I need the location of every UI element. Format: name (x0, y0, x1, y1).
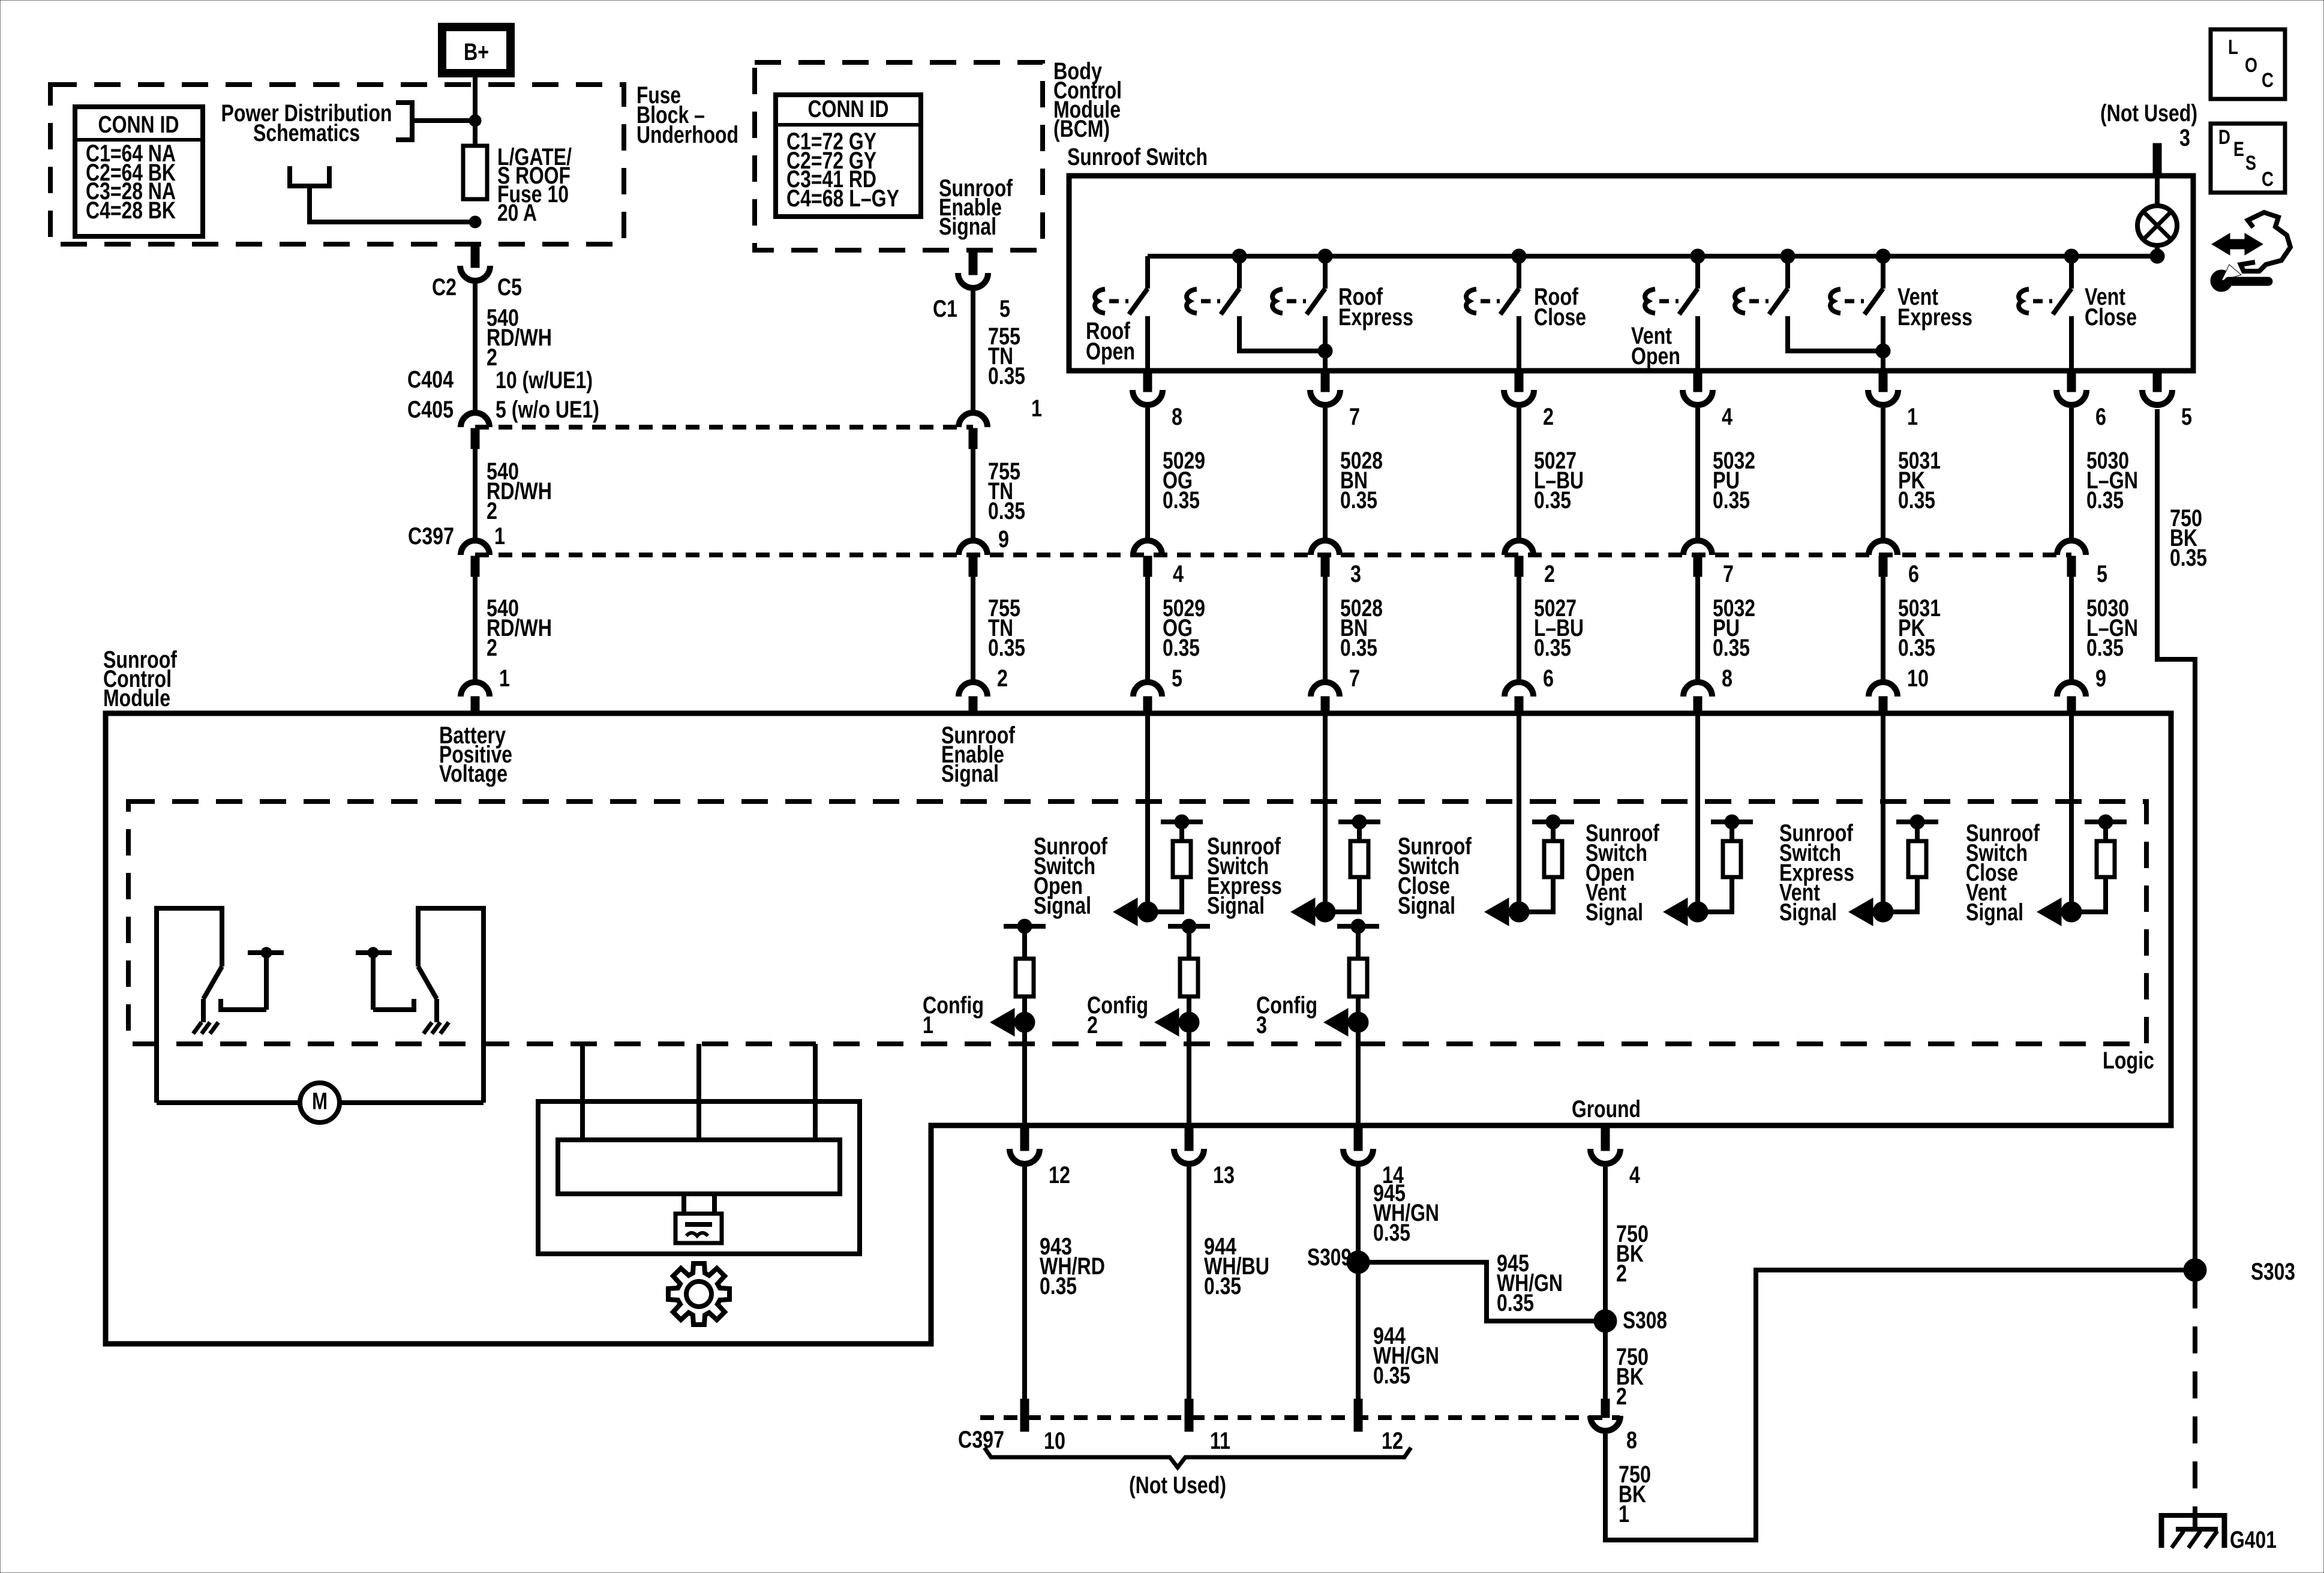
wire 755 TN 0.35 (segment 2) (973, 449, 1025, 541)
switch connector pin 7 (1310, 371, 1360, 430)
connector C397 pin 2 (1505, 541, 1555, 587)
svg-text:4: 4 (1629, 1162, 1641, 1188)
resistor pull-up (sunroof switch close signal) (1519, 815, 1574, 912)
resistor config 2 (1168, 919, 1210, 1022)
switch: vent open detent (linked to vent express) (1735, 249, 1890, 358)
connector C397 pin 4 (1133, 541, 1184, 587)
wire 5030 L–GN 0.35 (upper) (2071, 408, 2138, 541)
svg-text:2: 2 (1616, 1383, 1627, 1410)
svg-text:0.35: 0.35 (2086, 487, 2124, 514)
module pin 2 (sunroof enable signal) (959, 665, 1008, 713)
wire 5028 BN 0.35 (lower) (1325, 577, 1383, 682)
svg-text:Open: Open (1086, 338, 1135, 365)
svg-text:L: L (2228, 36, 2238, 59)
module pin 10 (1869, 665, 1929, 713)
svg-text:0.35: 0.35 (1534, 635, 1571, 661)
svg-text:7: 7 (1349, 404, 1360, 430)
svg-text:(BCM): (BCM) (1053, 116, 1110, 142)
module pin 8 (1683, 665, 1733, 713)
svg-text:0.35: 0.35 (988, 635, 1025, 661)
switch: roof express (1272, 249, 1413, 371)
svg-text:7: 7 (1349, 665, 1360, 692)
wire 5032 PU 0.35 (lower) (1698, 577, 1755, 682)
wire B+ to fuse (473, 73, 478, 146)
svg-text:5: 5 (2097, 561, 2107, 587)
svg-text:5: 5 (2181, 404, 2192, 430)
svg-text:2: 2 (997, 665, 1008, 692)
config 2 arrow (1087, 992, 1199, 1038)
svg-text:C2: C2 (432, 274, 457, 301)
LOC reference box (2211, 29, 2285, 99)
svg-text:3: 3 (1350, 561, 1361, 587)
switch connector pin 8 (1133, 371, 1182, 430)
ground-side bracket reference (290, 166, 472, 222)
drive gear (668, 1263, 729, 1325)
svg-text:Logic: Logic (2103, 1047, 2154, 1074)
CONN ID table (BCM) (776, 95, 921, 217)
svg-text:(Not Used): (Not Used) (2100, 100, 2197, 127)
switch connector pin 4 (1683, 371, 1733, 430)
svg-text:Express: Express (1338, 304, 1413, 331)
illumination lamp (2137, 175, 2177, 263)
signal arrow sunroof switch close vent signal (1966, 820, 2082, 926)
svg-text:5: 5 (1172, 665, 1182, 692)
svg-text:0.35: 0.35 (1373, 1362, 1410, 1389)
signal arrow sunroof switch open signal (1034, 833, 1158, 926)
svg-text:7: 7 (1723, 561, 1734, 587)
svg-text:C404: C404 (407, 367, 454, 393)
connector C397 pin 6 (1869, 541, 1919, 587)
wire 5030 L–GN 0.35 (lower) (2071, 577, 2138, 682)
wire 540 RD/WH 2 (segment 1) (475, 284, 552, 413)
power distribution schematics reference (221, 100, 473, 146)
wire 5031 PK 0.35 (upper) (1883, 408, 1941, 541)
svg-text:Express: Express (1897, 304, 1972, 331)
svg-text:E: E (2233, 138, 2244, 161)
connector C397 pin 8 (bottom) (1590, 1399, 1637, 1454)
svg-text:0.35: 0.35 (2086, 635, 2124, 661)
svg-text:12: 12 (1382, 1428, 1403, 1454)
switch connector pin 5 (2142, 371, 2192, 430)
signal arrow sunroof switch open vent signal (1586, 820, 1708, 926)
switch connector pin 1 (1868, 371, 1918, 430)
config 3 arrow (1256, 992, 1368, 1038)
pin 3 not used stub (2100, 100, 2197, 175)
svg-text:0.35: 0.35 (1163, 487, 1200, 514)
svg-text:3: 3 (1256, 1012, 1267, 1038)
wire 5028 BN 0.35 (upper) (1325, 408, 1383, 541)
svg-text:8: 8 (1172, 404, 1182, 430)
svg-text:S309: S309 (1307, 1244, 1352, 1271)
config 1 arrow (923, 992, 1035, 1038)
battery feed B+ terminal (442, 27, 511, 73)
svg-text:0.35: 0.35 (988, 498, 1025, 524)
svg-text:4: 4 (1722, 404, 1733, 430)
switch: vent close (2019, 249, 2137, 371)
svg-text:6: 6 (2095, 404, 2106, 430)
svg-text:2: 2 (1616, 1260, 1627, 1287)
svg-text:1: 1 (1031, 395, 1042, 422)
svg-text:0.35: 0.35 (1713, 635, 1750, 661)
switch: roof open detent (linked to roof express) (1187, 249, 1332, 358)
svg-text:6: 6 (1543, 665, 1554, 692)
resistor pull-up (sunroof switch express vent signal) (1883, 815, 1938, 912)
connector C2/C5 (fuse block output) (432, 244, 522, 301)
svg-text:1: 1 (1619, 1501, 1629, 1527)
wire 750 BK 2 (upper) (1605, 1167, 1649, 1321)
module pin 1 (battery positive voltage) (461, 665, 510, 713)
switch supply bus (1148, 254, 2157, 259)
switch: vent express (1830, 249, 1972, 371)
wire 5029 OG 0.35 (upper) (1148, 408, 1205, 541)
svg-text:Signal: Signal (1207, 893, 1265, 919)
svg-text:0.35: 0.35 (1898, 635, 1935, 661)
DESC reference box (2211, 124, 2285, 193)
logic dashed box (128, 801, 2154, 1074)
svg-text:13: 13 (1213, 1162, 1235, 1188)
svg-text:S308: S308 (1623, 1307, 1667, 1334)
svg-text:8: 8 (1626, 1427, 1637, 1454)
svg-text:10: 10 (1044, 1428, 1065, 1454)
body control module (BCM) dashed box (755, 58, 1122, 250)
module pin 5 (1133, 665, 1182, 713)
sensor pickup element (675, 1194, 722, 1243)
wire 540 RD/WH 2 (segment 2) (475, 449, 552, 541)
svg-text:S: S (2245, 152, 2256, 175)
label sunroof enable signal (BCM) (939, 175, 1013, 240)
svg-text:3: 3 (2179, 125, 2190, 151)
svg-text:C405: C405 (407, 397, 454, 423)
resistor pull-up (sunroof switch open vent signal) (1698, 815, 1753, 912)
svg-text:0.35: 0.35 (988, 363, 1025, 389)
wire 540 RD/WH 2 (segment 3) (475, 577, 552, 682)
svg-text:Voltage: Voltage (439, 761, 508, 787)
svg-text:1: 1 (923, 1012, 933, 1038)
svg-text:C397: C397 (408, 523, 454, 550)
connector row C397 (top) (408, 523, 2071, 577)
wire 755 TN 0.35 (segment 1) (973, 291, 1025, 413)
svg-text:C397: C397 (958, 1427, 1004, 1453)
connector C397 pin 7 (1683, 541, 1734, 587)
svg-text:8: 8 (1722, 665, 1733, 692)
svg-text:2: 2 (1087, 1012, 1098, 1038)
svg-text:1: 1 (499, 665, 510, 692)
brace (not used pins) (984, 1448, 1411, 1499)
svg-text:0.35: 0.35 (1373, 1220, 1410, 1246)
resistor config 3 (1337, 919, 1379, 1022)
wire sunroof switch close vent signal input (2069, 713, 2074, 912)
label sunroof enable signal (module) (941, 722, 1016, 787)
resistor pull-up (sunroof switch express signal) (1325, 815, 1380, 912)
svg-text:9: 9 (998, 526, 1009, 553)
node S303 (2184, 1259, 2295, 1285)
switch connector pin 2 (1504, 371, 1554, 430)
wire sunroof switch open signal input (1145, 713, 1150, 912)
svg-text:5: 5 (999, 296, 1010, 322)
svg-text:Sunroof Switch: Sunroof Switch (1067, 144, 1208, 170)
connector C397 pin (not used) under config (1020, 1399, 1029, 1431)
svg-text:6: 6 (1908, 561, 1919, 587)
wire 944 WH/GN 0.35 (S309 down) (1358, 1262, 1439, 1399)
svg-text:C4=28 BK: C4=28 BK (86, 197, 176, 224)
svg-text:S303: S303 (2251, 1259, 2295, 1285)
position sensor block (538, 1044, 860, 1254)
fuse block - underhood dashed box (50, 82, 738, 244)
svg-text:9: 9 (2095, 665, 2106, 692)
svg-text:5 (w/o UE1): 5 (w/o UE1) (496, 397, 599, 423)
module pin 12 (config) (1010, 1022, 1070, 1188)
svg-text:0.35: 0.35 (1340, 487, 1377, 514)
wire 750 BK 2 (lower) (1605, 1321, 1649, 1410)
connector C1 pin 5 (BCM output) (933, 250, 1010, 322)
wire sunroof switch express signal input (1323, 713, 1328, 912)
svg-text:Signal: Signal (1034, 893, 1091, 919)
connector C397 pin 5 (2057, 541, 2107, 587)
node: power distribution tap (469, 115, 481, 127)
connector C397 pin 9 (959, 526, 1009, 577)
svg-text:2: 2 (487, 498, 497, 524)
wire 750 BK 1 to G401 (1605, 1270, 2195, 1540)
wire 5031 PK 0.35 (lower) (1883, 577, 1941, 682)
svg-text:Close: Close (2085, 304, 2137, 331)
switch: roof open (1086, 256, 1148, 371)
module pin 6 (1505, 665, 1554, 713)
svg-text:0.35: 0.35 (1163, 635, 1200, 661)
svg-text:C4=68 L–GY: C4=68 L–GY (786, 185, 899, 212)
wire 5032 PU 0.35 (upper) (1698, 408, 1755, 541)
wire S303 to G401 (dashed) (2193, 1281, 2197, 1527)
signal arrow sunroof switch express vent signal (1779, 820, 1893, 926)
signal arrow sunroof switch close signal (1398, 833, 1529, 926)
node: fuse output junction (469, 216, 481, 228)
svg-text:B+: B+ (464, 39, 489, 65)
connector C397 pin 12 stub (bottom) (1354, 1399, 1362, 1431)
svg-text:2: 2 (1544, 561, 1555, 587)
svg-text:G401: G401 (2230, 1527, 2277, 1553)
svg-text:C: C (2262, 69, 2274, 92)
svg-text:Signal: Signal (1966, 899, 2023, 926)
svg-text:0.35: 0.35 (1898, 487, 1935, 514)
switch connector pin 6 (2056, 371, 2106, 430)
svg-text:1: 1 (1907, 404, 1918, 430)
sunroof motor M (157, 1083, 484, 1122)
svg-text:CONN ID: CONN ID (98, 112, 179, 138)
module pin 4 (ground) (1590, 1125, 1641, 1188)
node S308 (1594, 1307, 1667, 1334)
svg-text:0.35: 0.35 (1204, 1273, 1241, 1299)
svg-text:10 (w/UE1): 10 (w/UE1) (496, 367, 593, 394)
svg-text:(Not Used): (Not Used) (1129, 1472, 1226, 1499)
module pin 9 (2057, 665, 2106, 713)
CONN ID table (fuse block) (75, 107, 203, 236)
svg-text:Signal: Signal (1586, 899, 1643, 926)
label ground (1572, 1096, 1641, 1122)
resistor config 1 (1004, 919, 1046, 1022)
output driver left (motor high side) (157, 908, 284, 1103)
svg-text:Signal: Signal (1779, 899, 1837, 926)
sunroof switch box (1067, 144, 2193, 371)
wire 5027 L–BU 0.35 (lower) (1519, 577, 1584, 682)
signal arrow sunroof switch express signal (1207, 833, 1335, 926)
wire 945 WH/GN 0.35 (S309 to S308) (1358, 1250, 1594, 1321)
label battery positive voltage (439, 722, 512, 787)
svg-text:2: 2 (1543, 404, 1554, 430)
svg-text:Module: Module (103, 685, 170, 712)
wire 944 WH/BU 0.35 (1189, 1167, 1269, 1399)
svg-text:0.35: 0.35 (1040, 1273, 1077, 1299)
connector C404/C405 pin 1 (959, 395, 1042, 449)
connector C397 pin 3 (1311, 541, 1361, 587)
wire 5027 L–BU 0.35 (upper) (1519, 408, 1584, 541)
svg-text:12: 12 (1049, 1162, 1070, 1188)
svg-text:Ground: Ground (1572, 1096, 1641, 1122)
wire 945 WH/GN 0.35 (pin 14 to S309) (1358, 1167, 1439, 1262)
wire 750 BK 0.35 (lamp ground to S303) (2157, 409, 2207, 1270)
sunroof control module box (103, 647, 2171, 1344)
svg-text:C5: C5 (497, 274, 522, 301)
svg-text:20 A: 20 A (497, 200, 537, 226)
wire 943 WH/RD 0.35 (1025, 1167, 1105, 1399)
svg-text:0.35: 0.35 (2170, 545, 2207, 571)
svg-text:Schematics: Schematics (253, 120, 360, 146)
svg-text:Underhood: Underhood (636, 122, 738, 148)
wire sunroof switch express vent signal input (1881, 713, 1885, 912)
wire 755 TN 0.35 (segment 3) (973, 577, 1025, 682)
resistor pull-up (sunroof switch open signal) (1148, 815, 1203, 912)
switch: roof close (1466, 249, 1586, 371)
body repair icon (arrow, car, wrench) (2211, 212, 2290, 292)
module pin 14 (config 3) (1343, 1022, 1404, 1188)
svg-text:0.35: 0.35 (1497, 1290, 1534, 1316)
connector row C397 (bottom) (958, 1418, 1620, 1454)
ground G401 (2159, 1513, 2277, 1553)
switch: vent open (1631, 249, 1705, 371)
svg-text:Close: Close (1534, 304, 1586, 331)
svg-text:11: 11 (1210, 1428, 1230, 1454)
svg-text:0.35: 0.35 (1713, 487, 1750, 514)
svg-text:Open: Open (1631, 343, 1680, 370)
wire 5029 OG 0.35 (lower) (1148, 577, 1205, 682)
svg-text:M: M (312, 1088, 328, 1115)
connector row C404/C405 (407, 367, 973, 449)
node S309 (1307, 1244, 1370, 1274)
output driver right (motor low side) (356, 908, 484, 1103)
svg-text:4: 4 (1173, 561, 1184, 587)
module pin 13 (config) (1174, 1022, 1235, 1188)
module pin 7 (1311, 665, 1360, 713)
svg-text:0.35: 0.35 (1340, 635, 1377, 661)
resistor pull-up (sunroof switch close vent signal) (2071, 815, 2127, 912)
svg-text:Signal: Signal (1398, 893, 1455, 919)
svg-text:O: O (2245, 54, 2257, 77)
svg-text:Signal: Signal (939, 214, 996, 240)
svg-text:CONN ID: CONN ID (808, 96, 889, 122)
svg-text:2: 2 (487, 635, 497, 661)
wire sunroof switch open vent signal input (1695, 713, 1700, 912)
svg-text:10: 10 (1907, 665, 1929, 692)
fuse F10 L/GATE / S ROOF 20 A (463, 144, 572, 226)
svg-text:1: 1 (494, 523, 505, 550)
svg-text:D: D (2218, 126, 2230, 149)
svg-text:Signal: Signal (941, 761, 999, 787)
connector C397 pin (not used) under config (1185, 1399, 1193, 1431)
wire sunroof switch close signal input (1517, 713, 1521, 912)
svg-text:C: C (2262, 168, 2274, 191)
svg-text:0.35: 0.35 (1534, 487, 1571, 514)
svg-text:C1: C1 (933, 296, 957, 322)
